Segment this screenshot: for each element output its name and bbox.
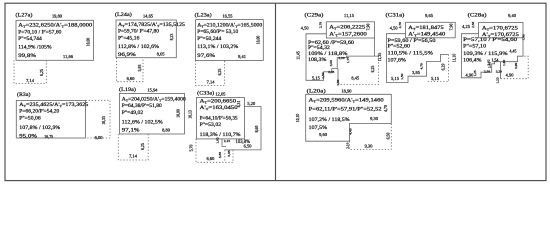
svg-text:P''=50,06: P''=50,06 bbox=[19, 115, 41, 121]
C33a right extension solid bbox=[225, 107, 262, 150]
svg-text:6,50: 6,50 bbox=[387, 133, 392, 140]
svg-text:AT​=235,4625/A'T​=173,3625: AT​=235,4625/A'T​=173,3625 bbox=[19, 102, 88, 108]
svg-text:1,90: 1,90 bbox=[502, 59, 507, 65]
svg-text:P=59,70/ P'=47,80: P=59,70/ P'=47,80 bbox=[118, 29, 159, 35]
C28a room outline solid bbox=[462, 34, 524, 78]
svg-text:8,60: 8,60 bbox=[255, 126, 260, 133]
svg-text:1,50: 1,50 bbox=[321, 72, 326, 78]
svg-text:(C31a): (C31a) bbox=[386, 12, 405, 19]
svg-text:9,30: 9,30 bbox=[370, 116, 378, 122]
C33a small step bbox=[222, 139, 226, 147]
svg-text:6,00: 6,00 bbox=[95, 135, 103, 141]
svg-text:2,15: 2,15 bbox=[224, 139, 230, 144]
svg-text:P''=45,16: P''=45,16 bbox=[118, 36, 140, 42]
svg-text:AT​=170,6725: AT​=170,6725 bbox=[482, 25, 518, 31]
svg-text:P''=52,60: P''=52,60 bbox=[388, 43, 411, 49]
svg-text:19,80: 19,80 bbox=[52, 13, 62, 19]
svg-text:(R3a): (R3a) bbox=[17, 91, 31, 98]
svg-text:3,29: 3,29 bbox=[496, 69, 502, 74]
svg-text:1,54: 1,54 bbox=[492, 58, 499, 63]
svg-text:AT​=181,8475: AT​=181,8475 bbox=[408, 25, 444, 31]
C31a stat box bbox=[406, 22, 456, 38]
L23a dashed extension bbox=[196, 60, 225, 85]
svg-text:(L20a): (L20a) bbox=[307, 87, 326, 94]
svg-text:AT​=210,1200/A'T​=165,5000: AT​=210,1200/A'T​=165,5000 bbox=[197, 22, 262, 28]
svg-text:16,75: 16,75 bbox=[44, 135, 53, 140]
outer border frame bbox=[5, 3, 546, 180]
svg-text:3,85: 3,85 bbox=[218, 152, 223, 158]
svg-text:2,05: 2,05 bbox=[328, 70, 334, 75]
svg-text:6,60: 6,60 bbox=[127, 76, 135, 82]
svg-text:9,40: 9,40 bbox=[508, 13, 516, 19]
L23a stat box bbox=[196, 20, 264, 61]
svg-text:109,3% / 115,9%: 109,3% / 115,9% bbox=[463, 51, 508, 57]
C31a dashed outline bbox=[427, 55, 449, 82]
svg-text:4,50: 4,50 bbox=[390, 26, 398, 32]
L24a dashed extension bbox=[117, 58, 144, 82]
svg-text:3,99: 3,99 bbox=[514, 62, 519, 68]
svg-text:7,14: 7,14 bbox=[129, 154, 138, 160]
svg-text:(C29a): (C29a) bbox=[305, 12, 324, 19]
svg-text:5,15: 5,15 bbox=[391, 76, 399, 82]
svg-text:3,00: 3,00 bbox=[329, 60, 334, 66]
svg-text:6,25: 6,25 bbox=[141, 143, 146, 150]
L19a stat box bbox=[119, 93, 184, 134]
svg-text:(C33a): (C33a) bbox=[197, 90, 214, 97]
svg-text:7,14: 7,14 bbox=[207, 79, 216, 85]
C33a dashed extension bottom bbox=[196, 139, 233, 162]
L24a stat box bbox=[116, 20, 176, 58]
C28a notch wall bbox=[500, 62, 502, 79]
svg-text:2,56: 2,56 bbox=[484, 69, 490, 74]
svg-text:11,15: 11,15 bbox=[344, 13, 354, 19]
svg-text:107,8% / 102,9%: 107,8% / 102,9% bbox=[19, 125, 60, 131]
svg-text:6,50: 6,50 bbox=[244, 143, 252, 149]
svg-text:9,65: 9,65 bbox=[425, 13, 433, 19]
svg-text:A'T​=163,0450: A'T​=163,0450 bbox=[200, 105, 238, 111]
svg-text:4,45: 4,45 bbox=[510, 50, 517, 55]
svg-text:4,40: 4,40 bbox=[349, 128, 354, 134]
svg-text:P=64,38/P'=51,80: P=64,38/P'=51,80 bbox=[122, 103, 162, 109]
svg-text:106,4%: 106,4% bbox=[463, 58, 482, 64]
svg-text:P=64,10/P'=56,35: P=64,10/P'=56,35 bbox=[200, 116, 238, 122]
C28a stat box bbox=[479, 23, 524, 38]
svg-text:10,13: 10,13 bbox=[189, 110, 194, 119]
svg-text:7,14: 7,14 bbox=[26, 78, 35, 84]
svg-text:2,20: 2,20 bbox=[338, 56, 344, 61]
svg-text:P''=57,10: P''=57,10 bbox=[463, 44, 486, 50]
svg-text:10,00: 10,00 bbox=[256, 36, 261, 45]
C29a dashed outline bbox=[338, 56, 379, 84]
L27a dashed extension bbox=[14, 60, 46, 83]
svg-text:4,25: 4,25 bbox=[462, 24, 470, 30]
svg-text:16,55: 16,55 bbox=[222, 13, 232, 19]
svg-text:1,50: 1,50 bbox=[336, 79, 341, 85]
svg-text:112,8% / 102,6%: 112,8% / 102,6% bbox=[118, 44, 159, 50]
vertical divider line bbox=[275, 3, 277, 180]
svg-text:18,90: 18,90 bbox=[341, 88, 351, 94]
svg-text:4,31: 4,31 bbox=[237, 101, 242, 108]
svg-text:107,5%: 107,5% bbox=[309, 125, 328, 131]
svg-text:(L24a): (L24a) bbox=[115, 11, 132, 18]
svg-text:112,6% / 102,5%: 112,6% / 102,5% bbox=[122, 120, 163, 126]
svg-text:11,66: 11,66 bbox=[63, 54, 74, 60]
svg-text:5,70: 5,70 bbox=[190, 145, 195, 152]
svg-text:6,60: 6,60 bbox=[206, 156, 214, 162]
svg-text:1,50: 1,50 bbox=[400, 73, 405, 79]
svg-text:6,25: 6,25 bbox=[40, 69, 45, 76]
svg-text:6,29: 6,29 bbox=[442, 64, 447, 71]
L20a room outline solid bbox=[306, 94, 392, 141]
svg-text:(L19a): (L19a) bbox=[119, 86, 136, 93]
svg-text:2,79: 2,79 bbox=[319, 22, 324, 28]
svg-text:4,70: 4,70 bbox=[384, 105, 389, 112]
svg-text:4,79: 4,79 bbox=[419, 63, 424, 69]
svg-text:11,10: 11,10 bbox=[453, 54, 458, 63]
svg-text:1,23: 1,23 bbox=[495, 77, 500, 83]
svg-text:1,85: 1,85 bbox=[216, 137, 221, 143]
svg-text:5,93: 5,93 bbox=[138, 65, 143, 72]
svg-text:7,90: 7,90 bbox=[522, 34, 527, 40]
svg-text:6,25: 6,25 bbox=[371, 66, 376, 73]
svg-text:5,20: 5,20 bbox=[247, 101, 255, 107]
svg-text:3,85: 3,85 bbox=[412, 70, 420, 76]
svg-text:2,56: 2,56 bbox=[471, 21, 476, 27]
svg-text:9,23: 9,23 bbox=[170, 34, 175, 41]
svg-text:12,05: 12,05 bbox=[215, 92, 225, 98]
svg-text:96,9%: 96,9% bbox=[118, 52, 136, 58]
svg-text:P=62,11/P'=57,91/P''=52,52: P=62,11/P'=57,91/P''=52,52 bbox=[309, 107, 382, 113]
svg-text:A'T​=157,2600: A'T​=157,2600 bbox=[329, 31, 367, 37]
C31a room outline solid bbox=[387, 34, 449, 83]
svg-text:8,05: 8,05 bbox=[157, 51, 165, 57]
svg-text:10,33: 10,33 bbox=[102, 116, 107, 125]
svg-text:11,45: 11,45 bbox=[296, 51, 301, 60]
L20a dashed extension bbox=[350, 123, 392, 149]
svg-text:7,90: 7,90 bbox=[450, 24, 455, 31]
svg-text:6,25: 6,25 bbox=[218, 69, 223, 76]
svg-text:9,41: 9,41 bbox=[238, 54, 246, 60]
svg-text:118,3% / 110,7%: 118,3% / 110,7% bbox=[200, 132, 241, 138]
svg-text:AT​=174,7825/A'T​=135,5125: AT​=174,7825/A'T​=135,5125 bbox=[118, 22, 185, 28]
svg-text:10,00: 10,00 bbox=[177, 109, 182, 118]
svg-text:P''=53,02: P''=53,02 bbox=[200, 122, 222, 128]
svg-text:(L23a): (L23a) bbox=[195, 11, 212, 18]
svg-text:AT​=204,0250/A'T​=159,4000: AT​=204,0250/A'T​=159,4000 bbox=[122, 96, 186, 102]
C33a stat box bbox=[196, 98, 244, 139]
svg-text:114,9% /105%: 114,9% /105% bbox=[18, 44, 52, 50]
C29a right wall below box bbox=[374, 38, 376, 56]
C28a dashed outline bbox=[501, 56, 529, 78]
svg-text:14,65: 14,65 bbox=[143, 13, 153, 19]
svg-text:15,94: 15,94 bbox=[147, 88, 158, 94]
svg-text:95,0%: 95,0% bbox=[19, 134, 37, 140]
svg-text:AT​=232,6250/A'T​=188,0000: AT​=232,6250/A'T​=188,0000 bbox=[18, 23, 92, 29]
svg-text:113,1% / 103,2%: 113,1% / 103,2% bbox=[197, 44, 238, 50]
svg-text:108,3%: 108,3% bbox=[308, 57, 327, 63]
R3a dashed extension right bbox=[86, 100, 111, 138]
C29a step wall bbox=[337, 69, 339, 85]
svg-text:(C28a): (C28a) bbox=[468, 12, 487, 19]
svg-text:107,6%: 107,6% bbox=[388, 57, 407, 63]
svg-text:P=70,10 / P'=57,60: P=70,10 / P'=57,60 bbox=[18, 29, 61, 35]
svg-text:AT​=209,5960/A'T​=149,1460: AT​=209,5960/A'T​=149,1460 bbox=[309, 98, 384, 104]
C29a stat box bbox=[326, 22, 374, 38]
svg-text:110,5% / 115,5%: 110,5% / 115,5% bbox=[388, 51, 434, 57]
svg-text:AT​=200,6650: AT​=200,6650 bbox=[200, 98, 237, 104]
svg-text:99,8%: 99,8% bbox=[18, 53, 36, 59]
svg-text:1,25: 1,25 bbox=[473, 70, 478, 76]
svg-text:P=57,10 / P'=54,60: P=57,10 / P'=54,60 bbox=[463, 37, 517, 43]
svg-text:0,95: 0,95 bbox=[227, 150, 232, 156]
svg-text:A'T​=149,4540: A'T​=149,4540 bbox=[408, 32, 445, 38]
L27a stat box bbox=[16, 20, 94, 60]
svg-text:4,50: 4,50 bbox=[301, 26, 309, 32]
svg-text:9,60: 9,60 bbox=[319, 132, 327, 138]
L19a dashed extension bbox=[118, 134, 148, 160]
svg-text:97,6%: 97,6% bbox=[197, 53, 215, 59]
svg-text:8,45: 8,45 bbox=[351, 75, 359, 81]
svg-text:9,30: 9,30 bbox=[365, 144, 373, 150]
svg-text:P=66,20/P'=54,20: P=66,20/P'=54,20 bbox=[19, 109, 59, 115]
svg-text:8,80: 8,80 bbox=[162, 128, 170, 134]
svg-text:97,1%: 97,1% bbox=[122, 127, 140, 133]
svg-text:1,75: 1,75 bbox=[346, 57, 351, 63]
svg-text:P''=54,744: P''=54,744 bbox=[18, 36, 42, 42]
svg-text:(L27a): (L27a) bbox=[16, 11, 33, 18]
svg-text:P''=54,32: P''=54,32 bbox=[308, 45, 330, 51]
svg-text:P=65,60/P'= 53,10: P=65,60/P'= 53,10 bbox=[197, 29, 238, 35]
svg-text:AT​=206,2225: AT​=206,2225 bbox=[329, 25, 365, 31]
svg-text:7,90: 7,90 bbox=[367, 24, 372, 31]
R3a stat box bbox=[16, 100, 85, 138]
C33a dashed inner edge bbox=[224, 150, 226, 162]
svg-text:11,35: 11,35 bbox=[378, 53, 383, 62]
svg-text:2,79: 2,79 bbox=[398, 22, 403, 28]
C29a room outline solid bbox=[306, 34, 379, 81]
svg-text:P''=50,244: P''=50,244 bbox=[197, 36, 221, 42]
svg-text:10,00: 10,00 bbox=[86, 38, 91, 47]
svg-text:10,10: 10,10 bbox=[296, 114, 301, 123]
svg-text:107,2% / 118,5%: 107,2% / 118,5% bbox=[309, 117, 350, 123]
svg-text:P''=49,02: P''=49,02 bbox=[122, 110, 144, 116]
svg-text:4,90: 4,90 bbox=[506, 73, 514, 79]
